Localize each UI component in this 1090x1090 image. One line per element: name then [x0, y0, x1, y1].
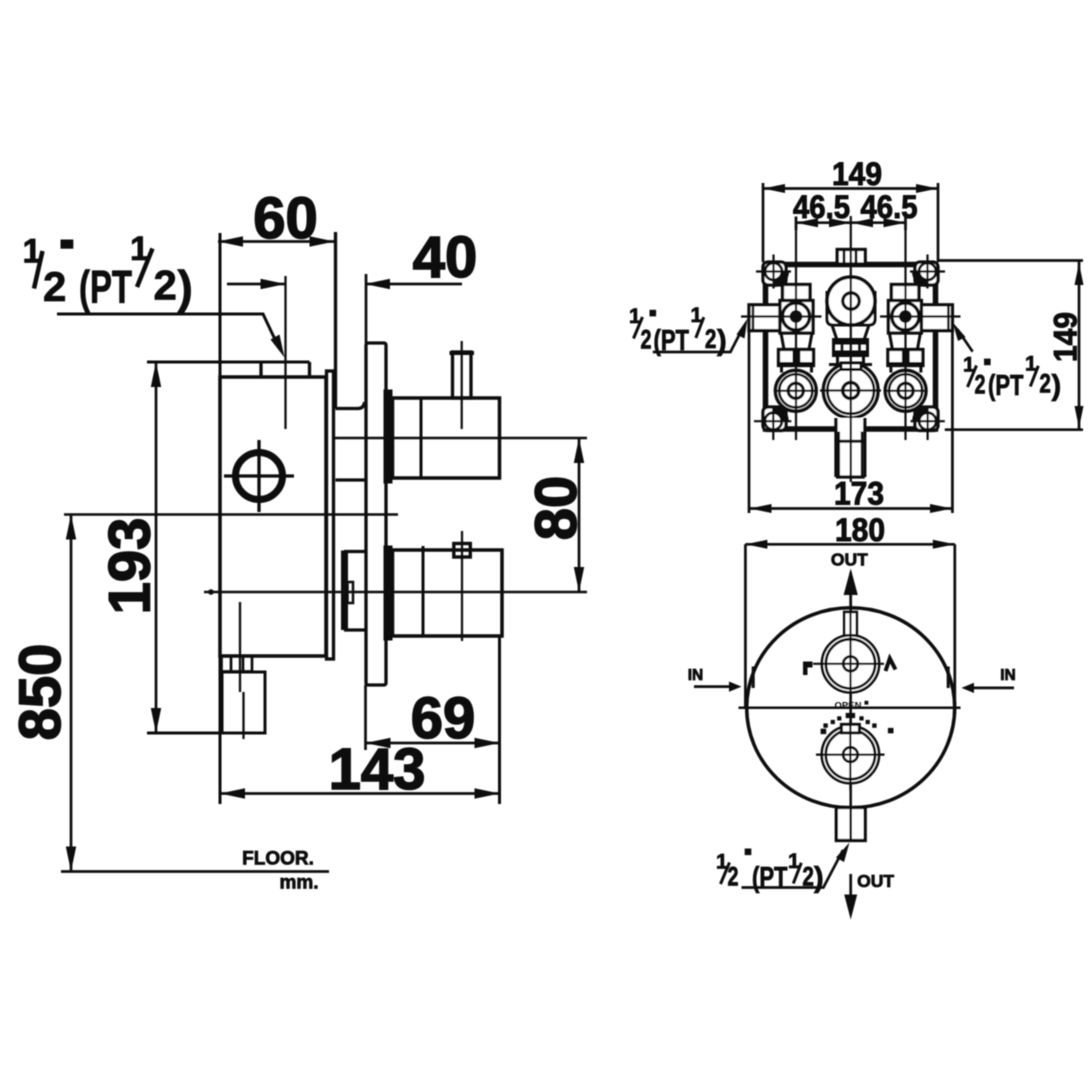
plan vertical centerline — [850, 216, 852, 482]
left temp mark — [803, 662, 813, 676]
leader to left pipe — [653, 319, 748, 353]
thermostat nut — [834, 340, 868, 356]
in-wall housing edge — [336, 232, 367, 480]
svg-text:(PT: (PT — [79, 261, 132, 313]
bottom valve centerline — [204, 589, 587, 595]
bottom port bracket — [342, 551, 367, 630]
dim 149 right — [938, 261, 1084, 430]
leader to bottom stub — [742, 843, 850, 888]
label half PT half (front bottom) — [716, 849, 824, 895]
plate horizontal centerline — [739, 707, 961, 710]
top inlet stub — [147, 362, 310, 377]
svg-text:149: 149 — [1048, 312, 1084, 362]
right temp mark — [886, 659, 896, 672]
svg-text:): ) — [1052, 370, 1062, 402]
label half PT half (plan left) — [629, 304, 727, 357]
bottom valve body — [393, 546, 503, 636]
top valve stem — [450, 341, 475, 429]
dim 46.5 x2 — [796, 217, 906, 231]
valve body side view — [220, 377, 326, 656]
right valve (plan) — [880, 217, 961, 441]
left valve (plan) — [741, 217, 822, 441]
leader to inlet — [57, 314, 285, 358]
svg-text:OUT: OUT — [831, 550, 868, 570]
corner bolts — [754, 255, 945, 441]
svg-text:46.5: 46.5 — [793, 189, 850, 225]
mid centerline — [64, 513, 398, 516]
body cap plate — [327, 371, 334, 659]
diverter circles — [820, 363, 881, 418]
temperature scale dots — [821, 713, 894, 734]
cover plate circle — [747, 608, 955, 808]
bottom outlet fitting — [222, 602, 265, 739]
svg-text:60: 60 — [253, 186, 318, 251]
dim 69 — [366, 636, 500, 804]
dim 143 — [220, 788, 500, 798]
svg-text:(PT: (PT — [752, 862, 788, 894]
front top stub — [844, 612, 857, 637]
svg-text:193: 193 — [98, 518, 163, 615]
top knob (thermostat) — [813, 613, 884, 712]
svg-text:mm.: mm. — [279, 873, 318, 894]
OPEN text — [835, 701, 869, 712]
svg-text:2: 2 — [154, 262, 177, 309]
svg-text:80: 80 — [524, 476, 589, 541]
bottom outlet thread — [220, 656, 253, 672]
stub centerline — [284, 276, 286, 429]
thermostat circle — [827, 277, 875, 325]
diverter neck — [838, 356, 864, 367]
bottom knob (volume) — [816, 720, 885, 790]
thermostat housing — [827, 291, 875, 325]
svg-text:OPEN: OPEN — [835, 701, 862, 712]
floor line — [61, 870, 329, 873]
top valve body — [393, 398, 500, 478]
top outlet stub (plan) — [837, 250, 865, 265]
svg-text:2: 2 — [705, 324, 717, 354]
label half PT half top-left — [23, 230, 193, 313]
plate vertical centerline — [849, 572, 852, 841]
svg-text:2: 2 — [1039, 369, 1051, 399]
svg-text:149: 149 — [832, 156, 882, 192]
bottom outlet stub (plan) — [836, 418, 865, 477]
mounting box — [766, 265, 936, 430]
dim 149 top — [763, 183, 938, 262]
dim 40 — [227, 279, 462, 289]
svg-text:2: 2 — [728, 862, 739, 892]
dim 180 — [745, 540, 954, 707]
svg-text:): ) — [814, 862, 824, 894]
svg-text:FLOOR.: FLOOR. — [242, 849, 314, 870]
screw symbol on body — [224, 440, 294, 512]
top valve centerline — [332, 437, 587, 440]
right inlet pipe (plan) — [921, 305, 952, 331]
bottom valve fitting — [454, 531, 471, 641]
escutcheon plate — [366, 274, 386, 685]
dim 80 — [574, 438, 584, 592]
plate seal pads — [384, 390, 392, 483]
corner pads — [763, 262, 938, 431]
svg-text:2: 2 — [975, 369, 986, 399]
svg-text:2: 2 — [641, 325, 652, 355]
svg-text:46.5: 46.5 — [861, 189, 918, 225]
label half PT half (plan right) — [963, 353, 1061, 402]
dim 60 — [218, 233, 335, 804]
svg-text:40: 40 — [413, 225, 478, 290]
svg-text:173: 173 — [834, 476, 884, 512]
thermostat neck — [832, 325, 869, 340]
front bottom stub — [836, 808, 865, 841]
dim 850 — [66, 515, 76, 872]
svg-text:143: 143 — [329, 737, 426, 802]
svg-text:IN: IN — [1000, 667, 1016, 684]
leader to right pipe — [953, 323, 973, 352]
left inlet pipe (plan) — [749, 305, 780, 331]
svg-text:850: 850 — [8, 644, 73, 741]
svg-text:): ) — [178, 261, 193, 313]
svg-text:OUT: OUT — [857, 871, 894, 891]
svg-text:(PT: (PT — [988, 370, 1024, 402]
dim 193 — [147, 362, 222, 733]
svg-text:IN: IN — [688, 667, 704, 684]
side flats — [753, 667, 948, 689]
svg-text:2: 2 — [43, 263, 66, 310]
dim 173 — [749, 331, 952, 513]
svg-text:180: 180 — [835, 512, 885, 548]
